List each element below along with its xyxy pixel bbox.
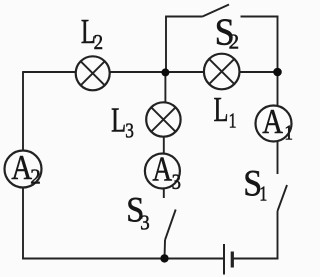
- switch S3 blade (open): [165, 210, 176, 241]
- svg-text:1: 1: [259, 182, 267, 206]
- wire right rail S2-branch down to node B: [277, 16, 279, 72]
- svg-text:3: 3: [140, 211, 149, 234]
- wire top rail right segment: [240, 71, 278, 73]
- svg-text:L: L: [111, 100, 126, 139]
- ammeter A1: [256, 101, 294, 145]
- wire ammeter A1 to switch S1 contact: [277, 141, 279, 174]
- lamp L2: [76, 56, 110, 90]
- battery negative plate (short): [231, 252, 234, 268]
- wire S2 branch right horizontal: [241, 16, 279, 18]
- svg-text:A: A: [11, 147, 32, 186]
- wire S2 branch left horizontal: [165, 16, 202, 18]
- label S3: [126, 190, 149, 235]
- node C junction dot: [160, 254, 168, 262]
- label L2: [81, 12, 103, 55]
- label L1: [214, 90, 237, 133]
- switch S1 blade (open): [278, 185, 288, 211]
- svg-text:L: L: [214, 90, 229, 129]
- wire ammeter A3 to switch S3 contact: [163, 188, 165, 198]
- node A junction dot: [161, 68, 169, 76]
- lamp L1: [204, 54, 240, 90]
- svg-text:2: 2: [94, 31, 103, 54]
- battery positive plate (long): [223, 244, 225, 275]
- svg-text:A: A: [152, 149, 172, 188]
- svg-text:2: 2: [229, 30, 240, 54]
- wire bottom rail left: [22, 258, 223, 260]
- wire top rail middle segment: [110, 71, 204, 73]
- wire left rail lower: [22, 187, 24, 259]
- wire lamp L3 to ammeter A3: [163, 137, 165, 154]
- label S2: [215, 12, 240, 54]
- svg-text:1: 1: [229, 109, 237, 133]
- svg-text:3: 3: [125, 120, 134, 143]
- svg-text:1: 1: [284, 122, 293, 145]
- svg-text:3: 3: [172, 170, 181, 194]
- ammeter A3: [145, 149, 181, 194]
- wire left rail upper: [22, 71, 24, 151]
- wire bottom rail right: [233, 258, 278, 260]
- svg-text:2: 2: [30, 164, 41, 188]
- svg-text:A: A: [262, 101, 283, 140]
- label S1: [243, 162, 267, 206]
- wire node A down to lamp L3: [164, 72, 166, 103]
- lamp L3: [146, 102, 180, 136]
- wire S2 branch vertical from node A: [165, 17, 167, 73]
- wire switch S3 pivot down to node C: [164, 240, 167, 259]
- wire top rail left segment: [23, 71, 76, 73]
- switch S2 blade (open): [203, 5, 230, 17]
- ammeter A2: [5, 147, 42, 188]
- node B junction dot: [273, 68, 282, 77]
- label L3: [111, 100, 134, 143]
- wire node B down to ammeter A1: [277, 72, 279, 106]
- wire switch S1 pivot down to bottom-right corner: [277, 211, 279, 259]
